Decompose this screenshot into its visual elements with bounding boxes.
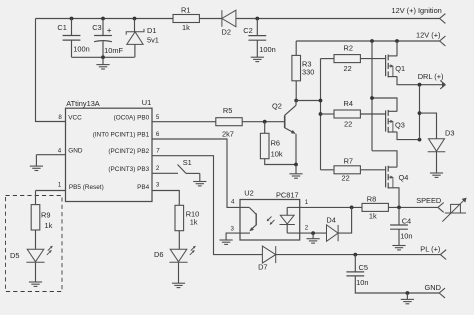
wire R2 to Q1 gate [360,58,385,60]
svg-text:(PCINT2) PB2: (PCINT2) PB2 [108,148,149,155]
wire Q1 drain to 12V rail [396,41,398,56]
svg-text:1: 1 [305,199,309,206]
node DRL net D3 tap [418,111,422,115]
speed sensor symbol [451,204,461,213]
pin 2 PB3 wire to S1 [152,172,178,174]
U2 light arrows [267,217,272,222]
wire Q4 source to SPEED net [397,188,399,208]
wire Q3 source to DRL net [397,132,420,140]
node 12V rail to drain bus [370,39,374,43]
diode D2 [221,10,223,27]
pin 7 PB2 wire to D7 [152,156,262,255]
ground D5 [35,263,37,282]
resistor R1 [173,15,199,23]
wire Q3 drain to 12V bus [372,98,397,111]
svg-text:SPEED: SPEED [416,196,441,205]
wire 12V bus to Q4 drain [372,151,397,167]
svg-text:330: 330 [302,68,314,77]
node Q2 collector [294,99,298,103]
LED D5 [35,230,37,249]
svg-text:R4: R4 [344,99,353,108]
U2 pin 3 wire to ground [226,233,240,240]
capacitor C2 [256,19,258,36]
svg-text:C3: C3 [92,23,101,32]
svg-text:R5: R5 [223,106,232,115]
wire 12V drain bus vertical [371,41,373,151]
wire D7 to PL port [276,254,441,256]
svg-text:ATtiny13A: ATtiny13A [66,99,100,108]
svg-text:1k: 1k [369,212,377,221]
node Q4 source C4 [397,206,401,210]
node Q2 emitter [294,163,298,167]
transistor Q4 [385,166,387,187]
svg-text:10n: 10n [400,231,412,240]
svg-text:Q1: Q1 [395,64,405,73]
port SPEED [438,203,444,208]
wire left bus to VCC [36,19,66,122]
svg-text:3: 3 [230,226,234,233]
wire collector node to gate bus [296,100,320,102]
svg-text:Q2: Q2 [272,102,282,111]
resistor R8 [362,203,388,211]
svg-text:22: 22 [342,174,350,183]
pin 4 GND wire [36,154,65,156]
svg-text:D3: D3 [445,129,454,138]
diode D7 [262,246,275,263]
svg-text:D1: D1 [147,26,156,35]
svg-text:6: 6 [156,131,160,138]
node C1 rail junction [70,17,74,21]
svg-text:R8: R8 [367,194,376,203]
U2 pin 1 wire to R8 [287,206,362,208]
svg-text:(INT0 PCINT1) PB1: (INT0 PCINT1) PB1 [93,132,150,139]
port 12V (+) [440,36,446,41]
resistor R7 [321,169,335,171]
svg-text:12V (+): 12V (+) [416,30,440,39]
node gate bus collector tap [319,99,323,103]
node U2 pin2 ground tap [311,231,315,235]
svg-text:Q3: Q3 [395,121,405,130]
zener diode D1 [134,19,136,32]
wire to D3 anode [420,113,437,139]
svg-text:S1: S1 [183,158,192,167]
transistor Q3 [385,110,387,131]
node C5 tap [353,253,357,257]
svg-text:U2: U2 [244,189,253,198]
port GND [439,288,445,293]
svg-text:D5: D5 [10,251,19,260]
wire DRL vertical [419,85,421,140]
svg-text:3: 3 [156,181,160,188]
svg-text:(OC0A) PB0: (OC0A) PB0 [114,114,150,121]
svg-text:12V (+) Ignition: 12V (+) Ignition [391,6,441,15]
ground C4 [398,229,400,245]
svg-text:2: 2 [305,225,309,232]
svg-text:R6: R6 [271,139,280,148]
wire top ignition rail left segment [36,18,174,20]
pin 1 PB5 wire [36,190,66,192]
ground C3 [102,57,104,64]
svg-text:C4: C4 [402,217,411,226]
ground U2 pin 2 [312,233,314,239]
svg-text:10k: 10k [271,150,283,159]
svg-text:R2: R2 [344,43,353,52]
node ignition junction C2 [255,17,259,21]
ground Q2 [295,165,297,174]
svg-text:+: + [107,26,112,35]
U2 pin 2 wire [287,232,326,234]
resistor R5 [216,118,242,126]
svg-text:1k: 1k [190,218,198,227]
wire C1-C3-D1 bottom net [72,56,135,58]
port PL (+) [440,250,446,255]
wire PB5 to R9 [35,191,37,205]
svg-text:4: 4 [231,198,235,205]
wire C5 to GND net [355,276,439,293]
svg-text:PL (+): PL (+) [420,245,440,254]
diode D4 [327,225,339,241]
svg-text:22: 22 [344,64,352,73]
svg-text:1k: 1k [45,221,53,230]
capacitor C5 [354,255,356,272]
wire 12V rail [296,40,439,42]
ground C2 [251,56,264,58]
svg-text:100n: 100n [259,45,275,54]
node DRL net Q3 source [418,138,422,142]
capacitor C3 [102,19,104,36]
node 12V rail to Q1 drain [395,39,399,43]
svg-text:GND: GND [68,148,83,155]
svg-text:22: 22 [344,120,352,129]
resistor R6 [264,122,266,134]
svg-text:DRL (+): DRL (+) [418,72,444,81]
node gate bus R4 tap [319,112,323,116]
node drain bus Q3 tap [370,96,374,100]
svg-text:D6: D6 [154,250,163,259]
U2 phototransistor [240,206,249,208]
LED D6 [170,249,187,261]
ground C5 net [406,293,408,299]
U2 internal LED [286,207,288,215]
wire R7 to Q4 gate [360,169,385,171]
wire R8 to SPEED port [388,206,438,208]
svg-text:100n: 100n [73,44,89,53]
wire R6 bottom to emitter node [265,159,296,165]
dashed option box [6,196,63,292]
node ground tap [406,291,410,295]
svg-text:7: 7 [156,147,160,154]
resistor R3 [295,41,297,55]
wire R3 to Q2 collector node [295,81,297,101]
svg-text:C5: C5 [359,263,368,272]
port DRL (+) [440,81,445,85]
svg-text:PB4: PB4 [137,184,150,191]
svg-text:10mF: 10mF [104,46,123,55]
svg-text:GND: GND [425,283,441,292]
svg-text:4: 4 [58,148,62,155]
node D4 cathode riser [350,206,354,210]
wire R1 to D2 [199,18,222,20]
svg-text:R1: R1 [181,5,190,14]
svg-text:D7: D7 [258,262,267,271]
svg-text:VCC: VCC [68,114,82,121]
resistor R2 [321,58,335,60]
capacitor C1 [71,19,73,36]
resistor R9 [31,205,40,230]
port 12V (+) Ignition [440,14,446,19]
svg-text:C2: C2 [243,26,252,35]
transistor Q1 [385,55,387,76]
svg-text:5: 5 [156,114,160,121]
svg-text:1: 1 [58,181,62,188]
svg-text:D4: D4 [326,216,335,225]
pin 5 PB0 [152,121,216,123]
capacitor C4 [398,207,400,225]
IC U1 ATtiny13A box [66,108,153,201]
pin 6 PB1 wire to U2 pin4 [152,139,240,207]
resistor R10 [175,205,184,230]
wire R10 to D6 [178,231,180,250]
resistor R4 [321,113,335,115]
ground S1 [199,173,201,181]
svg-text:Q4: Q4 [399,173,409,182]
svg-text:PB5 (Reset): PB5 (Reset) [69,184,104,191]
ground D6 [178,263,180,284]
node C3 rail junction [101,17,105,21]
svg-text:10n: 10n [356,278,368,287]
svg-text:C1: C1 [57,23,66,32]
ground D3 [436,152,438,173]
svg-text:R9: R9 [41,210,50,219]
ground U1 [35,155,37,166]
node D1 rail junction [133,17,137,21]
diode D3 [429,139,445,151]
svg-text:1k: 1k [182,23,190,32]
wire D4 to R8 node [339,207,352,233]
wire gate bus vertical [320,59,322,170]
wire D2 to ignition fork [236,18,440,20]
optocoupler U2 PC817 box [240,200,300,241]
svg-text:R7: R7 [344,157,353,166]
svg-text:2k7: 2k7 [222,130,234,139]
wire R4 to Q3 gate [360,113,385,115]
node DRL junction [418,83,422,87]
svg-text:2: 2 [156,165,160,172]
wire R5 to Q2 base [242,121,285,123]
svg-text:PC817: PC817 [276,190,299,199]
node R6 top [263,120,267,124]
svg-text:(PCINT3) PB3: (PCINT3) PB3 [108,166,149,173]
svg-text:U1: U1 [142,98,151,107]
pin 3 PB4 wire to R10 [152,191,179,206]
node C3 ground junction [101,55,105,59]
svg-text:D2: D2 [222,27,231,36]
svg-text:5v1: 5v1 [147,36,159,45]
wire Q1 source to DRL [397,77,443,85]
svg-text:8: 8 [58,114,62,121]
